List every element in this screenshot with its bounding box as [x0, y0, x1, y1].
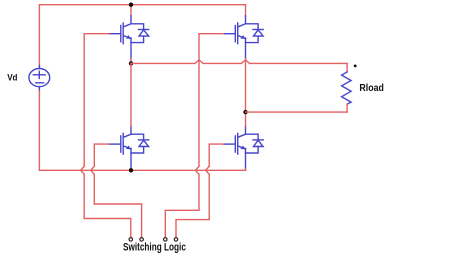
emitter arrow Q1	[126, 35, 131, 39]
wire Rload bottom drop	[346, 104, 348, 112]
emitter diagonal Q2	[238, 36, 245, 39]
diode D4 triangle	[254, 140, 264, 146]
wire gate Q2 to terminal 3 (hop over bottom rail)	[165, 34, 223, 238]
diode D3 triangle	[139, 140, 149, 146]
collector lead Q1	[130, 16, 132, 24]
diode D2 top link	[246, 24, 259, 30]
terminal 4 (Q4 gate)	[174, 238, 178, 242]
collector lead Q2	[245, 16, 247, 24]
wire gate Q3 to terminal 2 (hop over bottom rail)	[91, 144, 142, 238]
diode D4 cathode bar	[253, 139, 263, 141]
diode D3 top link	[131, 134, 144, 140]
node B junction dot (right leg midpoint)	[243, 110, 247, 114]
wire Q4 emitter to bottom rail	[245, 169, 247, 170]
diode D1 triangle	[139, 30, 149, 36]
node junction dot top rail / Q1 collector	[129, 2, 133, 6]
emitter lead Q3	[130, 148, 132, 169]
gate bar short Q3	[120, 136, 122, 152]
collector lead Q3	[130, 126, 132, 134]
wire gate Q1 to terminal 1 (hop over bottom rail)	[81, 34, 131, 238]
collector lead Q4	[245, 126, 247, 134]
emitter arrow Q2	[240, 35, 245, 39]
wire Q1 emitter to node A	[130, 59, 132, 64]
wire Vd bottom to bottom rail	[38, 91, 40, 171]
emitter diagonal Q1	[124, 36, 131, 39]
wire Q3 emitter to bottom rail	[130, 169, 132, 170]
diode D4 top link	[246, 134, 259, 140]
emitter lead Q1	[130, 38, 132, 59]
terminal 3 (Q2 gate)	[164, 238, 168, 242]
voltage source Vd	[29, 66, 50, 91]
polarity dot marker at Rload top	[354, 65, 357, 68]
gate lead Q3	[109, 143, 120, 145]
wire gate Q4 to terminal 4 (hop over bottom rail)	[176, 144, 224, 238]
svg-text:Rload: Rload	[359, 83, 384, 94]
diode D4 bottom link	[246, 147, 259, 154]
wire top rail (Vd+ to Q1/Q2 collectors)	[39, 4, 245, 6]
wire bottom rail (Vd- to Q4 emitter)	[39, 169, 245, 171]
terminal 2 (Q3 gate)	[140, 238, 144, 242]
gate lead Q1	[109, 33, 120, 35]
wire Rload top drop	[346, 63, 348, 72]
wire left leg collector drop to Q1	[130, 5, 132, 16]
collector diagonal Q3	[124, 134, 131, 137]
wire Q2 emitter down right leg to Q4 collector	[245, 59, 247, 127]
IGBT Q1 (top-left) with antiparallel diode D1	[109, 16, 149, 59]
IGBT Q2 (top-right) with antiparallel diode D2	[224, 16, 264, 59]
wire left drop from top rail to Vd top	[38, 5, 40, 66]
gate bar tall Q4	[237, 133, 239, 154]
resistor Rload	[342, 72, 352, 104]
diode D1 cathode bar	[139, 29, 149, 31]
node A junction dot (left leg midpoint)	[129, 61, 133, 65]
gate bar tall Q2	[237, 23, 239, 44]
IGBT Q4 (bottom-right) with antiparallel diode D4	[224, 126, 264, 169]
emitter lead Q4	[245, 148, 247, 169]
collector diagonal Q2	[238, 24, 245, 27]
diode D3 cathode bar	[139, 139, 149, 141]
gate bar tall Q3	[122, 133, 124, 154]
svg-text:Switching Logic: Switching Logic	[123, 242, 186, 254]
wire node A to Rload top (with hops over gate wire and right leg)	[131, 60, 347, 64]
gate bar tall Q1	[122, 23, 124, 44]
svg-text:Vd: Vd	[7, 72, 17, 82]
IGBT Q3 (bottom-left) with antiparallel diode D3	[109, 126, 149, 169]
diode D2 triangle	[254, 30, 264, 36]
emitter diagonal Q3	[124, 146, 131, 149]
diode D3 bottom link	[131, 147, 144, 154]
emitter arrow Q3	[126, 146, 131, 150]
diode D1 top link	[131, 24, 144, 30]
gate bar short Q2	[234, 26, 236, 42]
gate bar short Q1	[120, 26, 122, 42]
gate lead Q2	[224, 33, 235, 35]
diode D1 bottom link	[131, 36, 144, 43]
wire Rload bottom to node B	[246, 111, 348, 113]
gate lead Q4	[224, 143, 235, 145]
wire node A down to Q3 collector	[130, 63, 132, 126]
wire right drop from top rail to Q2 collector	[245, 5, 247, 16]
diode D2 bottom link	[246, 36, 259, 43]
terminal 1 (Q1 gate)	[129, 238, 133, 242]
collector diagonal Q1	[124, 24, 131, 27]
node junction dot bottom rail / Q3 emitter	[129, 168, 133, 172]
emitter lead Q2	[245, 38, 247, 59]
emitter diagonal Q4	[238, 146, 245, 149]
emitter arrow Q4	[240, 146, 245, 150]
diode D2 cathode bar	[253, 29, 263, 31]
gate bar short Q4	[234, 136, 236, 152]
collector diagonal Q4	[238, 134, 245, 137]
